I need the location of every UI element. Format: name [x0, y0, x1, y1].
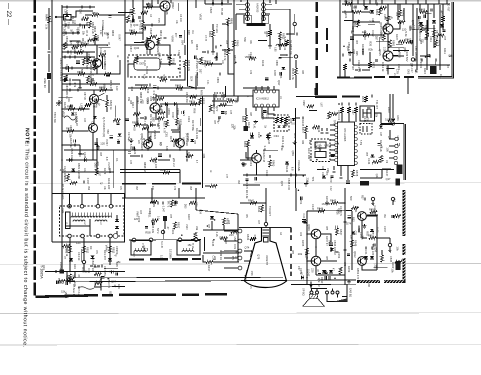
junction: [107, 44, 109, 46]
wire: [125, 44, 146, 46]
svg-text:C43: C43: [267, 140, 269, 145]
svg-text:R92: R92: [366, 231, 369, 236]
capacitor C56: [152, 222, 154, 225]
wire rail: [295, 108, 297, 188]
resistor R5: [99, 53, 106, 56]
resistor R35: [148, 136, 151, 143]
svg-text:120: 120: [115, 86, 119, 91]
svg-text:R111: R111: [443, 48, 447, 54]
capacitor C870: [421, 58, 423, 61]
electrolytic capacitor C63: [302, 219, 306, 221]
CRT enclosure dashed right edge: [290, 228, 292, 277]
svg-text:R820 1k: R820 1k: [109, 100, 113, 110]
svg-text:VR56: VR56: [261, 113, 265, 120]
svg-text:R893: R893: [265, 31, 268, 38]
resistor R838: [222, 218, 225, 225]
svg-text:R899: R899: [157, 110, 164, 113]
resistor R24: [307, 105, 314, 108]
svg-text:R842: R842: [257, 206, 261, 213]
capacitor C858: [341, 102, 343, 105]
electrolytic capacitor C21: [427, 53, 431, 55]
svg-text:C55: C55: [443, 36, 445, 41]
CRT socket terminals: [238, 229, 242, 233]
svg-text:C24: C24: [198, 209, 202, 214]
wire: [316, 274, 345, 276]
T803 internals: [363, 126, 367, 132]
electrolytic capacitor C36: [109, 135, 113, 137]
svg-text:VR85: VR85: [181, 137, 185, 144]
capacitor C30: [331, 176, 334, 178]
resistor R881: [388, 40, 391, 48]
capacitor C835: [162, 201, 164, 204]
svg-text:C87: C87: [351, 110, 354, 115]
svg-text:C171: C171: [182, 110, 185, 117]
faint scan line: [0, 343, 481, 346]
wire top bus: [342, 3, 450, 5]
svg-text:C143: C143: [367, 158, 371, 165]
wire: [116, 231, 118, 236]
junction: [306, 260, 308, 262]
resistor R53: [219, 103, 226, 106]
capacitor C61: [336, 226, 338, 229]
wire: [212, 24, 214, 30]
capacitor C810: [69, 55, 71, 58]
resistor R894: [163, 171, 170, 174]
wire: [393, 55, 404, 57]
svg-text:R67: R67: [351, 66, 353, 71]
terminal J7: [96, 234, 100, 238]
svg-text:R898 220: R898 220: [143, 162, 146, 173]
resistor R859: [284, 117, 287, 123]
svg-text:33k: 33k: [195, 226, 199, 231]
svg-text:R49: R49: [301, 140, 303, 145]
svg-text:10%: 10%: [101, 20, 104, 26]
resistor R887: [90, 82, 97, 85]
wire: [256, 163, 258, 175]
svg-text:R56: R56: [192, 108, 196, 114]
capacitor C17: [215, 45, 217, 48]
IC1 pin box left: [244, 15, 251, 23]
svg-text:C137: C137: [257, 132, 261, 139]
capacitor C19: [280, 72, 282, 75]
svg-text:0.1: 0.1: [115, 158, 119, 162]
wire: [135, 84, 148, 86]
wire: [72, 80, 80, 86]
svg-text:R121 10k: R121 10k: [195, 128, 199, 140]
svg-text:120: 120: [190, 40, 193, 45]
svg-text:R887: R887: [89, 80, 96, 84]
svg-text:D37: D37: [198, 69, 201, 74]
wire: [294, 14, 296, 22]
CRT base hatch: [245, 250, 252, 277]
CRT enclosure top line: [239, 227, 291, 229]
resistor R1: [82, 17, 89, 20]
IC3 pin leads: [256, 86, 274, 111]
svg-text:Q809: Q809: [307, 224, 311, 231]
resistor R7: [87, 57, 90, 64]
wire: [243, 184, 260, 186]
board edge connector bar (vertical): [403, 190, 406, 281]
resistor R12: [157, 38, 160, 45]
capacitor C880: [278, 57, 281, 59]
trap element 2: [315, 152, 326, 158]
capacitor C839: [335, 251, 338, 253]
ground: [214, 56, 218, 60]
svg-text:VR12: VR12: [324, 143, 331, 147]
wire: [223, 225, 225, 230]
diode D11: [282, 126, 285, 128]
capacitor C817: [141, 41, 144, 43]
svg-text:D16: D16: [130, 87, 133, 92]
svg-text:6.8: 6.8: [290, 167, 293, 171]
svg-text:220: 220: [362, 30, 367, 34]
IC5 pins right: [354, 126, 357, 129]
capacitor C851: [351, 30, 353, 33]
trap element 1: [315, 142, 326, 148]
diode D6: [301, 276, 304, 280]
resistor R866: [398, 10, 401, 17]
svg-text:R1 1k C9 470: R1 1k C9 470: [61, 184, 64, 200]
svg-text:5.5M: 5.5M: [359, 140, 361, 145]
resistor R803: [80, 43, 87, 46]
resistor R828: [175, 118, 178, 125]
heavy dashed y77 extension: [337, 77, 372, 79]
wire: [280, 54, 287, 56]
diode D1: [150, 123, 153, 127]
resistor R893: [268, 30, 271, 36]
svg-text:C127 16V: C127 16V: [63, 166, 67, 178]
terminal J11: [178, 238, 182, 242]
svg-text:560: 560: [243, 37, 247, 42]
svg-text:SP 8Ω: SP 8Ω: [302, 288, 306, 296]
resistor R878: [351, 170, 354, 177]
terminal J3: [96, 204, 100, 208]
wire: [240, 159, 252, 161]
capacitor C40: [74, 139, 76, 142]
wire: [427, 4, 429, 31]
terminal J1: [68, 204, 72, 208]
capacitor C819: [149, 83, 151, 86]
resistor R10: [150, 35, 157, 38]
wire: [268, 111, 274, 115]
svg-text:L78: L78: [149, 96, 153, 101]
resistor R29: [157, 117, 164, 120]
svg-text:0.047: 0.047: [171, 112, 175, 119]
wire: [132, 15, 134, 22]
terminal double circle: [113, 234, 118, 239]
capacitor C2: [109, 16, 112, 18]
ground: [348, 51, 352, 55]
wire: [203, 229, 239, 231]
resistor R49: [388, 119, 395, 122]
capacitor C875: [74, 50, 76, 53]
svg-text:R84: R84: [96, 99, 100, 104]
resistor R41: [189, 201, 196, 204]
svg-text:GND: GND: [367, 282, 369, 287]
capacitor C34: [246, 179, 249, 181]
svg-text:0.1: 0.1: [368, 10, 372, 14]
resistor R855: [244, 115, 247, 122]
wire: [184, 45, 186, 55]
svg-text:R896 4.7k: R896 4.7k: [223, 49, 226, 61]
capacitor C68: [398, 143, 400, 146]
capacitor C881: [219, 72, 221, 75]
junction: [286, 33, 288, 35]
svg-text:R863: R863: [375, 9, 379, 16]
test point TP802b: [293, 22, 296, 25]
svg-text:C145: C145: [211, 240, 215, 247]
svg-text:C4 100: C4 100: [179, 14, 182, 23]
wire: [155, 113, 157, 120]
wire: [62, 130, 89, 132]
capacitor C66: [364, 197, 366, 200]
diode D807: [108, 258, 112, 261]
resistor R833: [108, 246, 111, 253]
svg-text:R159: R159: [347, 266, 351, 273]
resistor R13: [135, 56, 138, 63]
wire: [55, 16, 64, 18]
wire: [65, 280, 75, 282]
svg-text:33k: 33k: [308, 140, 312, 145]
svg-text:C77: C77: [225, 174, 227, 179]
electrolytic capacitor C814: [76, 60, 80, 62]
resistor R830: [227, 99, 234, 102]
wire: [69, 238, 71, 272]
wire: [212, 0, 214, 4]
svg-text:R78: R78: [200, 90, 204, 96]
svg-text:0.01: 0.01: [375, 227, 379, 233]
svg-text:R917: R917: [207, 265, 211, 272]
diode D808: [163, 216, 167, 221]
capacitor C20: [425, 37, 428, 39]
svg-text:L53: L53: [233, 237, 236, 242]
resistor R824: [190, 102, 197, 105]
resistor R851: [369, 236, 376, 239]
svg-text:Q30: Q30: [133, 23, 139, 27]
svg-text:C35: C35: [229, 110, 231, 115]
wire: [203, 252, 239, 254]
wire: [166, 113, 168, 118]
svg-text:D54: D54: [181, 40, 184, 45]
resistor R822: [66, 174, 69, 181]
wire: [340, 166, 342, 177]
svg-text:R886: R886: [99, 86, 106, 90]
svg-text:R845: R845: [330, 199, 337, 203]
wire: [96, 160, 98, 170]
svg-text:R109 12k: R109 12k: [417, 18, 421, 30]
capacitor C885: [186, 158, 188, 161]
wire: [262, 111, 274, 118]
ground: [347, 280, 351, 284]
svg-text:Q97: Q97: [277, 80, 281, 86]
svg-text:0.047: 0.047: [99, 48, 102, 55]
svg-text:0.047: 0.047: [105, 139, 109, 146]
diode D23: [118, 134, 122, 137]
wire: [128, 64, 134, 77]
electrolytic capacitor C8: [153, 85, 157, 87]
wire: [295, 188, 297, 211]
wire: [256, 150, 258, 153]
svg-text:C80: C80: [79, 9, 83, 14]
wire: [305, 133, 307, 139]
svg-text:C53: C53: [250, 271, 253, 276]
svg-text:6.8: 6.8: [79, 47, 82, 51]
svg-text:C61: C61: [91, 121, 95, 126]
resistor R804: [88, 38, 95, 41]
bias network box: [274, 115, 289, 131]
svg-text:R119 470: R119 470: [157, 118, 161, 130]
svg-text:C809 0.01 C810 50V: C809 0.01 C810 50V: [59, 58, 62, 82]
resistor R846 3.3k: [47, 16, 50, 23]
svg-text:R21: R21: [396, 116, 400, 122]
resistor R22: [328, 112, 331, 119]
wire block loop bottom: [353, 64, 450, 66]
diode D24: [71, 112, 75, 115]
junction: [124, 44, 126, 46]
resistor R876: [354, 107, 357, 113]
resistor R835: [58, 279, 65, 282]
capacitor C15: [132, 19, 134, 22]
capacitor C874: [67, 50, 69, 53]
resistor R880: [210, 184, 217, 187]
svg-text:T801 SW: T801 SW: [53, 112, 57, 123]
diode D10: [277, 126, 280, 128]
resistor R872: [343, 64, 346, 70]
capacitor C824: [83, 180, 85, 183]
wire: [74, 272, 76, 278]
svg-text:Q76: Q76: [257, 254, 261, 259]
junction: [55, 16, 57, 18]
svg-text:R115: R115: [423, 68, 427, 75]
wire: [376, 237, 390, 239]
resistor R864: [356, 20, 359, 27]
svg-text:R125: R125: [63, 102, 67, 109]
electrolytic capacitor C18: [265, 77, 269, 79]
wire: [369, 52, 371, 62]
svg-text:C125: C125: [83, 152, 87, 159]
diode D32: [371, 154, 375, 157]
resistor R847: [335, 228, 338, 235]
svg-text:1S1588: 1S1588: [169, 249, 173, 259]
svg-text:R870: R870: [438, 40, 442, 47]
resistor R842: [260, 205, 263, 212]
earphone jack terminal 3: [336, 291, 339, 294]
resistor R44: [220, 237, 227, 240]
capacitor C862: [325, 132, 328, 134]
diode D15: [64, 78, 68, 81]
transistor Q807 2SB324: [144, 140, 153, 149]
svg-text:Q17: Q17: [386, 177, 391, 181]
wire: [178, 188, 180, 198]
svg-text:R97: R97: [135, 186, 137, 191]
wire: [179, 147, 181, 150]
wire rail: [344, 188, 346, 285]
wire: [279, 39, 281, 50]
wire: [342, 11, 354, 13]
resistor R38: [63, 244, 70, 247]
svg-text:C809: C809: [65, 64, 68, 71]
wire: [265, 203, 267, 227]
svg-text:C113 0.01: C113 0.01: [357, 60, 361, 72]
capacitor C848: [290, 173, 292, 176]
svg-text:L73: L73: [371, 211, 376, 215]
wire: [62, 56, 95, 58]
capacitor C866: [332, 171, 335, 173]
junction: [306, 277, 308, 279]
svg-text:R87: R87: [325, 256, 327, 261]
svg-text:D74: D74: [346, 222, 352, 226]
svg-text:H-4041: H-4041: [145, 66, 148, 75]
svg-text:C90: C90: [352, 50, 355, 55]
ground: [129, 139, 133, 143]
svg-text:R75: R75: [169, 214, 171, 219]
resistor R843: [250, 237, 256, 240]
svg-text:220: 220: [310, 268, 314, 273]
junction: [344, 202, 346, 204]
resistor R802: [88, 21, 91, 28]
wire: [48, 80, 50, 93]
wire: [392, 94, 394, 122]
resistor R861: [345, 2, 352, 5]
junction: [415, 70, 417, 72]
IC5 pin leads left: [330, 125, 335, 160]
svg-text:Q815: Q815: [378, 49, 382, 56]
capacitor C11: [179, 35, 182, 37]
capacitor C859: [348, 102, 350, 105]
junction: [179, 149, 181, 151]
capacitor C47: [133, 147, 135, 150]
svg-text:IC3 AN5612: IC3 AN5612: [256, 98, 270, 101]
wire: [344, 70, 346, 78]
svg-text:R59: R59: [395, 12, 397, 17]
svg-text:R145 8.2k: R145 8.2k: [379, 140, 383, 153]
wire: [203, 255, 206, 262]
capacitor C67: [373, 243, 375, 246]
wire: [152, 198, 156, 203]
tiny reference labels (scan texture): [60, 5, 454, 299]
wire: [307, 233, 311, 235]
shield dashed horizontal y96: [315, 95, 360, 97]
electrolytic capacitor C31: [331, 153, 335, 155]
svg-text:R41: R41: [249, 40, 251, 45]
connector leads: [389, 139, 395, 158]
diode D9: [250, 135, 254, 138]
resistor R890: [232, 40, 235, 47]
svg-text:Q8: Q8: [219, 236, 223, 240]
svg-text:C153: C153: [337, 252, 341, 259]
wire: [369, 0, 371, 4]
svg-text:D801 1S1588: D801 1S1588: [77, 163, 81, 179]
svg-text:C49: C49: [57, 278, 61, 283]
junction: [96, 171, 98, 173]
wire: [246, 152, 252, 158]
wire: [419, 4, 421, 12]
capacitor C876: [69, 82, 71, 85]
svg-text:47: 47: [77, 274, 81, 278]
wire: [136, 113, 138, 125]
capacitor C39: [95, 143, 98, 145]
resistor R16: [249, 57, 256, 60]
wire: [321, 260, 337, 262]
wire: [381, 250, 383, 255]
svg-text:C19: C19: [249, 161, 253, 166]
svg-text:TP68: TP68: [67, 22, 71, 29]
diode D21: [266, 135, 270, 138]
wire: [96, 138, 98, 160]
svg-text:TO CRT: TO CRT: [268, 206, 272, 216]
junction: [207, 225, 209, 227]
svg-text:R888 1.5k: R888 1.5k: [139, 92, 142, 104]
